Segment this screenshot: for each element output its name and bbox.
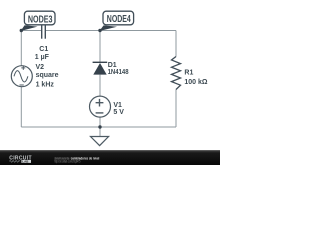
- svg-text:LAB: LAB: [22, 160, 29, 164]
- svg-text:square: square: [36, 72, 59, 79]
- svg-text:5 V: 5 V: [113, 109, 124, 116]
- svg-text:C1: C1: [39, 46, 48, 53]
- svg-text:V2: V2: [36, 64, 45, 71]
- svg-text:1 µF: 1 µF: [35, 54, 50, 61]
- svg-text:D1: D1: [108, 62, 117, 69]
- svg-text:http://circuitlab.com/c/5q8475: http://circuitlab.com/c/5q8475: [54, 160, 80, 164]
- svg-text:1N4148: 1N4148: [108, 69, 129, 76]
- svg-text:R1: R1: [184, 69, 193, 76]
- svg-text:100 kΩ: 100 kΩ: [184, 79, 208, 86]
- svg-text:1 kHz: 1 kHz: [36, 82, 55, 89]
- svg-text:NODE4: NODE4: [107, 14, 131, 25]
- svg-text:NODE3: NODE3: [28, 14, 53, 25]
